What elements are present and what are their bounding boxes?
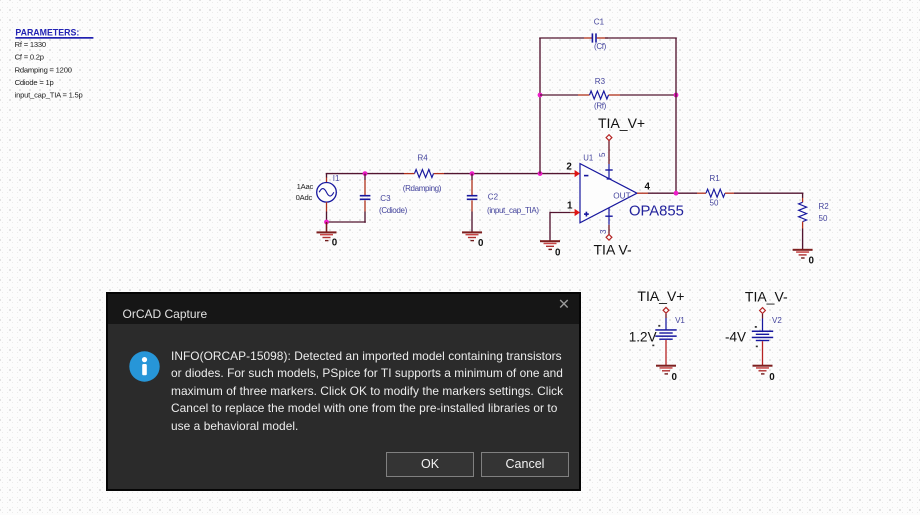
svg-text:R2: R2 xyxy=(819,202,830,211)
wire C3 vertical bottom xyxy=(364,200,366,223)
port TIA V- at op-amp xyxy=(594,234,632,257)
wire C3 vertical top xyxy=(364,174,366,195)
port TIA_V- at V2 xyxy=(745,288,788,313)
current source I1 xyxy=(296,174,340,202)
svg-text:Rf = 1330: Rf = 1330 xyxy=(15,40,46,49)
resistor R1 xyxy=(697,174,734,207)
wire V2 top xyxy=(762,314,764,331)
node junction R3 right xyxy=(674,93,679,98)
svg-text:1: 1 xyxy=(567,200,573,211)
dialog Cancel button xyxy=(481,452,569,477)
pin 3 V- xyxy=(599,208,613,234)
node junction feedback left xyxy=(538,171,543,176)
resistor R4 xyxy=(403,154,442,193)
wire I1 vertical bottom xyxy=(326,202,328,222)
source V2 battery xyxy=(725,316,782,347)
svg-text:TIA_V+: TIA_V+ xyxy=(637,288,684,304)
svg-text:4: 4 xyxy=(645,181,651,192)
svg-text:1Aac: 1Aac xyxy=(297,182,314,191)
wire feedback right vertical xyxy=(675,38,677,193)
pin R4 left red xyxy=(404,173,415,175)
node junction C3 top xyxy=(363,171,368,176)
source V1 battery xyxy=(629,316,686,346)
resistor R3 xyxy=(590,77,609,110)
svg-text:R4: R4 xyxy=(418,154,429,163)
pin 2 arrow xyxy=(566,161,580,177)
op-amp U1 xyxy=(580,153,684,222)
ground 0 at V1 xyxy=(656,365,678,384)
svg-text:R3: R3 xyxy=(595,77,606,86)
port TIA_V+ at V1 xyxy=(637,288,684,313)
port TIA_V+ at op-amp xyxy=(598,115,645,141)
ground 0 at V2 xyxy=(753,365,776,384)
node junction output xyxy=(674,191,679,196)
wire C2 vertical top xyxy=(471,174,473,195)
ground 0 at I1 xyxy=(317,231,338,248)
ground 0 at pin 1 xyxy=(540,240,561,258)
pin 1 arrow and wire to ground xyxy=(550,200,580,241)
svg-text:I1: I1 xyxy=(333,174,340,183)
svg-text:-4V: -4V xyxy=(725,329,746,344)
svg-text:(Cf): (Cf) xyxy=(594,42,607,51)
node junction I1 ground xyxy=(324,220,329,225)
svg-text:3: 3 xyxy=(599,229,608,234)
resistor R2 xyxy=(799,198,830,229)
svg-text:(Rf): (Rf) xyxy=(594,101,607,110)
pin 4 output wire xyxy=(637,181,697,193)
wire feedback left vertical xyxy=(539,38,541,174)
wire R3 row xyxy=(540,94,676,96)
svg-text:TIA_V+: TIA_V+ xyxy=(598,115,645,131)
svg-text:Rdamping = 1200: Rdamping = 1200 xyxy=(15,65,72,74)
svg-text:0: 0 xyxy=(809,255,815,266)
svg-text:V2: V2 xyxy=(772,316,782,325)
svg-text:(Cdiode): (Cdiode) xyxy=(379,206,408,215)
svg-text:TIA_V-: TIA_V- xyxy=(745,288,788,304)
node junction C2 top xyxy=(470,171,475,176)
wire V2 bottom xyxy=(762,341,764,365)
pin R4 right red xyxy=(434,173,445,175)
pin 5 V+ xyxy=(598,141,613,180)
node junction R3 left xyxy=(538,93,543,98)
svg-text:0: 0 xyxy=(672,372,678,383)
wire I1 vertical top xyxy=(326,174,328,183)
dialog message text xyxy=(171,348,563,436)
parameters heading xyxy=(15,28,93,39)
ground 0 at C2 xyxy=(462,231,484,248)
wire top rail from I1 to op-amp xyxy=(326,173,570,175)
wire C1 row xyxy=(539,37,677,39)
svg-text:Cdiode = 1p: Cdiode = 1p xyxy=(15,78,54,87)
svg-text:TIA V-: TIA V- xyxy=(594,241,632,257)
wire bottom rail I1 to C3 xyxy=(326,221,366,223)
svg-text:50: 50 xyxy=(819,214,828,223)
svg-text:C3: C3 xyxy=(380,194,391,203)
svg-text:U1: U1 xyxy=(583,153,593,162)
svg-text:PARAMETERS:: PARAMETERS: xyxy=(15,28,79,38)
svg-text:5: 5 xyxy=(598,152,607,157)
svg-text:0Adc: 0Adc xyxy=(296,193,313,202)
wire I1 ground stub xyxy=(326,222,328,232)
svg-text:C1: C1 xyxy=(594,18,605,27)
dialog OK button xyxy=(386,452,474,477)
capacitor C1 xyxy=(592,18,607,51)
capacitor C3 xyxy=(360,194,408,215)
svg-text:OPA855: OPA855 xyxy=(629,204,684,220)
wire R2 to ground xyxy=(802,229,804,250)
svg-text:V1: V1 xyxy=(675,316,685,325)
svg-text:Cf = 0.2p: Cf = 0.2p xyxy=(15,53,44,62)
ground 0 at R2 xyxy=(793,249,815,266)
wire V1 bottom xyxy=(665,340,667,366)
svg-text:0: 0 xyxy=(478,238,484,249)
wire R1 to R2 corner xyxy=(734,193,803,198)
wire V1 top xyxy=(665,314,667,330)
capacitor C2 xyxy=(467,193,540,215)
dialog info icon xyxy=(129,351,160,382)
svg-text:0: 0 xyxy=(332,237,338,248)
svg-text:2: 2 xyxy=(566,161,572,172)
svg-text:(Rdamping): (Rdamping) xyxy=(403,184,442,193)
svg-text:R1: R1 xyxy=(710,174,721,183)
dialog OrCAD Capture xyxy=(106,292,581,492)
svg-text:OUT: OUT xyxy=(613,191,630,200)
svg-text:0: 0 xyxy=(769,372,775,383)
svg-text:C2: C2 xyxy=(488,193,499,202)
svg-text:input_cap_TIA = 1.5p: input_cap_TIA = 1.5p xyxy=(15,91,83,100)
svg-text:(input_cap_TIA): (input_cap_TIA) xyxy=(487,206,539,215)
dialog title bar xyxy=(108,294,579,324)
wire C2 vertical bottom xyxy=(471,200,473,232)
svg-text:0: 0 xyxy=(555,247,561,258)
svg-text:1.2V: 1.2V xyxy=(629,329,657,344)
svg-text:50: 50 xyxy=(710,198,719,207)
